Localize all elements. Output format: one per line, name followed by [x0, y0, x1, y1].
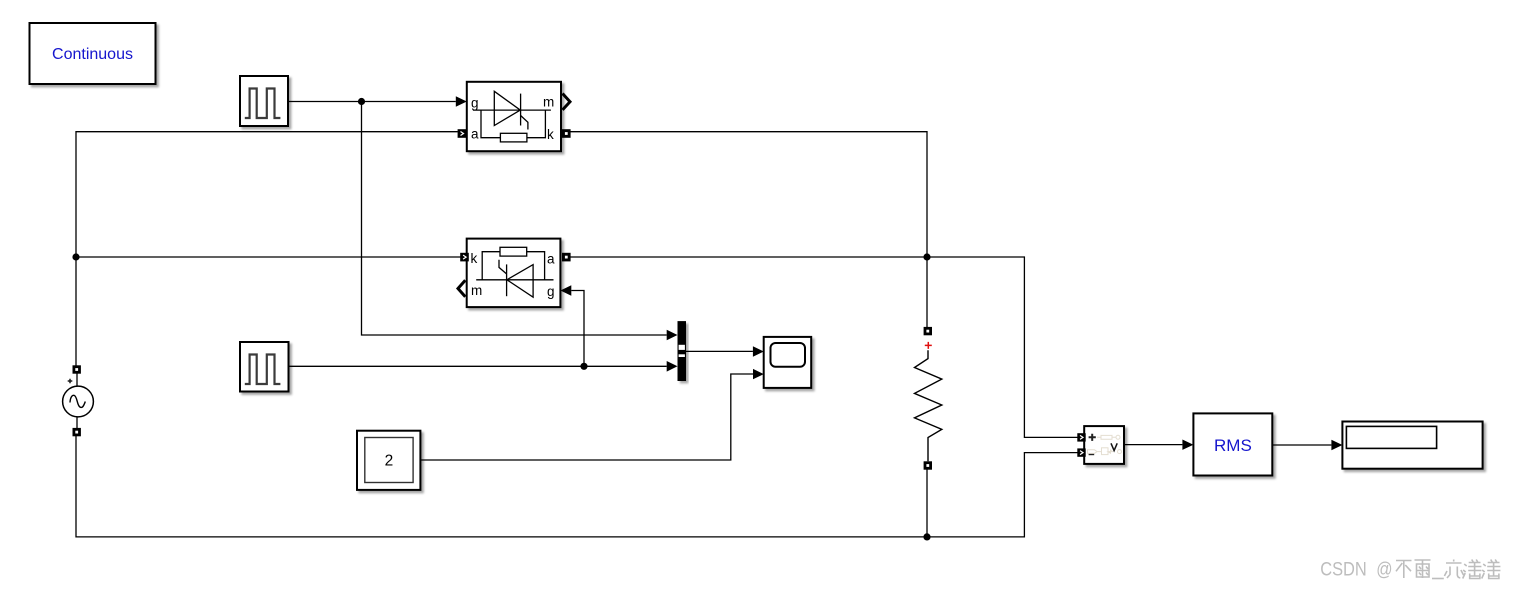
wire pulse2 to mux in2 [289, 365, 667, 367]
wire pulse1 to thyristor g [288, 101, 456, 103]
AC source bottom port [73, 428, 81, 436]
node D junction gate tap [580, 363, 587, 370]
svg-text:m: m [471, 283, 482, 298]
thyristor T2 port k square [460, 253, 469, 262]
resistor top port [924, 327, 932, 335]
pulse generator P2 [240, 342, 289, 392]
wire resistor bottom to bottom rail [926, 469, 928, 537]
thyristor T2 port a square [562, 253, 571, 262]
wire RMS to display [1272, 444, 1331, 446]
thyristor T2 [467, 239, 561, 308]
node A junction pulse1 [358, 98, 365, 105]
svg-text:2: 2 [385, 453, 394, 470]
constant block value 2 [357, 431, 420, 490]
svg-text:CSDN: CSDN [1320, 560, 1367, 581]
node C junction load top [923, 253, 930, 260]
thyristor T1 port m chevron [563, 94, 571, 110]
powergui Continuous block [30, 23, 156, 84]
svg-text:Continuous: Continuous [52, 46, 133, 63]
wire mux out to scope in1 [686, 350, 753, 352]
wire junction down to mux in1 [362, 102, 667, 336]
thyristor T1 port a square [458, 129, 467, 138]
node E junction bottom rail [923, 533, 930, 540]
display block [1342, 422, 1482, 469]
vm plus port [1077, 433, 1085, 441]
series resistor R1 [915, 350, 942, 461]
wire load node down to resistor [926, 257, 928, 327]
svg-text:m: m [543, 95, 554, 110]
svg-text:a: a [547, 252, 555, 267]
resistor polarity plus red [925, 342, 932, 349]
mux U1 [678, 321, 687, 381]
svg-text:a: a [471, 127, 479, 142]
svg-text:k: k [471, 251, 478, 266]
RMS block [1193, 413, 1272, 475]
scope block [764, 337, 812, 388]
thyristor T1 [467, 82, 561, 151]
voltage measurement U2 [1084, 426, 1124, 464]
AC source top port [73, 365, 81, 373]
node B junction on left rail [72, 253, 79, 260]
wire gate tap up to thyristor2 g [571, 291, 584, 367]
wire source minus bottom rail to vm minus [76, 436, 1078, 537]
wire thyristor2 a to vm plus [570, 257, 1078, 437]
svg-text:@: @ [1376, 560, 1392, 581]
AC voltage source V1 [63, 374, 94, 429]
svg-text:RMS: RMS [1214, 436, 1252, 455]
svg-text:k: k [547, 127, 554, 142]
svg-text:g: g [471, 96, 479, 111]
thyristor T1 port k square [562, 129, 571, 138]
wire vm output to RMS [1124, 444, 1182, 446]
wire left rail to thyristor2 k [76, 256, 461, 258]
watermark CJK glyphs [1396, 560, 1500, 579]
pulse generator P1 [240, 76, 288, 126]
resistor bottom port [924, 461, 932, 469]
thyristor T2 port m chevron [458, 280, 465, 296]
wire constant to scope in2 [420, 374, 753, 460]
svg-text:g: g [547, 284, 555, 299]
wire thyristor1 k to load node [570, 132, 927, 254]
vm minus port [1077, 448, 1085, 456]
watermark CSDN [1320, 560, 1392, 581]
wire source plus to thyristor1 a [76, 132, 458, 366]
